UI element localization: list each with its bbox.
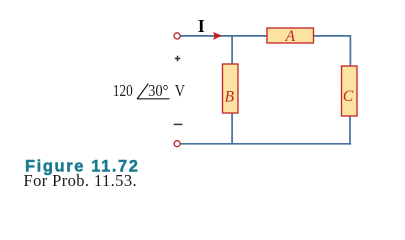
svg-text:30°: 30°	[148, 81, 168, 100]
wire: branch leg from top node down to box B	[231, 36, 233, 65]
svg-text:B: B	[225, 89, 235, 106]
label I	[198, 16, 205, 36]
wire: bottom from - terminal to bottom-right corner	[180, 143, 351, 145]
source value label 120/30deg V	[113, 81, 186, 100]
impedance box C	[342, 66, 358, 116]
svg-text:C: C	[343, 88, 354, 105]
wire: right leg from top corner down to box C	[349, 35, 351, 66]
current arrow I	[213, 32, 222, 40]
svg-text:V: V	[175, 81, 186, 100]
minus sign	[174, 123, 183, 125]
wire: top from + terminal to box A	[180, 35, 268, 37]
svg-text:I: I	[198, 16, 205, 36]
wire: box B to bottom wire	[231, 113, 233, 144]
wire: box C to bottom wire	[349, 116, 351, 145]
wire: top from box A to top-right corner	[313, 35, 350, 37]
plus sign	[175, 56, 181, 62]
svg-text:A: A	[285, 28, 296, 45]
svg-text:120: 120	[113, 81, 133, 100]
caption: For Prob. 11.53.	[24, 171, 138, 190]
caption: Figure 11.72	[25, 157, 140, 175]
voltage source negative terminal	[174, 141, 180, 147]
voltage source positive terminal	[174, 33, 180, 39]
svg-text:For Prob. 11.53.: For Prob. 11.53.	[24, 171, 138, 190]
impedance box B	[223, 64, 239, 113]
impedance box A	[267, 28, 314, 45]
